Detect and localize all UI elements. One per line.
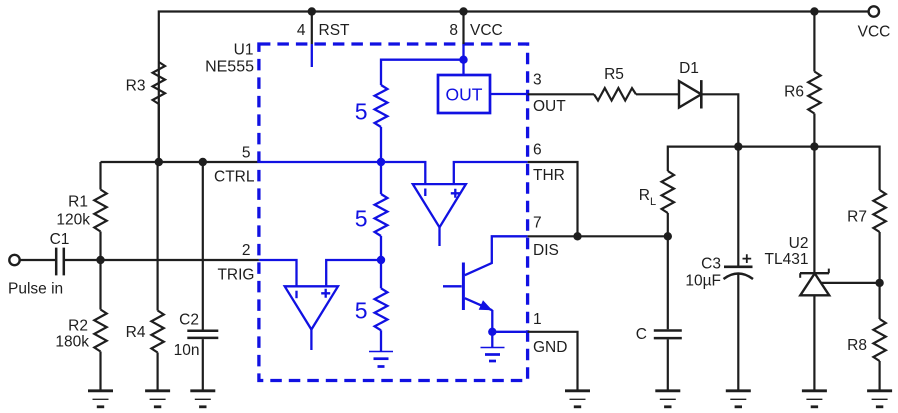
svg-text:TRIG: TRIG (217, 267, 254, 284)
node CTRL internal (377, 158, 385, 166)
wire CTRL line (101, 161, 259, 163)
pin 8 VCC (449, 12, 502, 76)
ground C2 (190, 391, 215, 407)
svg-text:5: 5 (355, 298, 368, 324)
wire OUT to pin 3 (490, 93, 528, 95)
ground R8 (867, 391, 892, 407)
node R6 rail junction (810, 7, 818, 15)
op-amp lower comparator (285, 286, 338, 350)
resistor R6 (784, 12, 820, 147)
wire D1 to lower rail (701, 94, 738, 146)
svg-text:C1: C1 (50, 231, 70, 248)
resistor R3 (126, 62, 165, 104)
svg-text:OUT: OUT (533, 98, 566, 115)
svg-text:D1: D1 (679, 60, 699, 77)
resistor R4 (126, 311, 164, 353)
wire pin7 DIS external (528, 235, 668, 237)
wire C3 to ground (737, 274, 739, 391)
svg-text:NE555: NE555 (205, 59, 254, 76)
wire emitter ground stub (491, 332, 493, 348)
wire CTRL corner down to R1 (99, 162, 101, 190)
svg-text:OUT: OUT (446, 85, 483, 105)
node emitter GND (488, 328, 496, 336)
node D1/C3 (734, 142, 742, 150)
ground R4 (145, 391, 170, 407)
svg-text:R: R (639, 187, 650, 204)
wire C to ground (667, 339, 669, 390)
node VCC rail junction (459, 7, 467, 15)
wire C1 to TRIG pin 2 (65, 259, 259, 261)
svg-text:1: 1 (533, 311, 542, 328)
wire U2 ref to divider (821, 282, 880, 284)
wire R3 bottom to CTRL line (158, 104, 160, 162)
node THR/DIS (573, 232, 581, 240)
wire RL to DIS node (667, 213, 669, 329)
svg-text:10n: 10n (174, 342, 200, 359)
wire internal VCC to divider (381, 60, 464, 85)
terminal Pulse in (9, 255, 19, 265)
wire R4 column (CTRL to ground) (157, 162, 159, 390)
wire C2 column (202, 162, 204, 390)
svg-text:VCC: VCC (858, 24, 891, 41)
capacitor C2 (174, 311, 219, 359)
svg-text:R1: R1 (68, 194, 88, 211)
svg-text:7: 7 (533, 215, 542, 232)
svg-text:C3: C3 (701, 256, 721, 273)
svg-text:120k: 120k (56, 212, 90, 229)
wire pulse to C1 (20, 259, 55, 261)
OUT block (438, 75, 490, 113)
svg-text:R8: R8 (847, 337, 867, 354)
diode D1 (679, 60, 701, 109)
capacitor C1 (50, 231, 70, 275)
svg-text:THR: THR (533, 167, 565, 184)
resistor RL (639, 171, 674, 213)
transistor Q1 discharge (443, 236, 528, 331)
svg-text:TL431: TL431 (765, 251, 809, 268)
svg-text:RST: RST (319, 22, 351, 39)
svg-text:5: 5 (355, 206, 368, 232)
wire pin1 GND external (528, 332, 578, 390)
ground GND pin (565, 391, 590, 407)
wire R1 to TRIG (99, 232, 101, 261)
node ref divider (875, 279, 883, 287)
svg-text:U2: U2 (789, 235, 809, 252)
wire divider upper to CTRL node (380, 127, 382, 194)
wire pin6 THR external (528, 162, 578, 236)
capacitor C timing (636, 326, 682, 343)
svg-text:C: C (636, 326, 647, 343)
capacitor C3 (685, 147, 753, 290)
wire R7 to R8 (878, 232, 880, 319)
svg-text:GND: GND (533, 339, 567, 356)
node C2 on CTRL (199, 158, 207, 166)
svg-text:VCC: VCC (470, 22, 503, 39)
wire pin1 GND internal (492, 331, 527, 333)
ground U2 (802, 391, 827, 407)
svg-text:3: 3 (533, 72, 542, 89)
ground internal divider (369, 352, 393, 367)
wire R8 to ground (878, 361, 880, 390)
node R3/R4 on CTRL (155, 158, 163, 166)
svg-text:8: 8 (449, 22, 458, 39)
svg-text:4: 4 (297, 22, 306, 39)
svg-text:R3: R3 (126, 78, 146, 95)
ground R2 (88, 391, 113, 407)
shunt reference U2 TL431 (765, 147, 830, 296)
svg-text:R4: R4 (126, 324, 146, 341)
node TRIG junction (96, 256, 104, 264)
ground emitter (481, 348, 505, 362)
node internal VCC (459, 56, 467, 64)
wire divider middle to TRIG node (380, 236, 382, 288)
op-amp upper comparator (413, 184, 466, 246)
resistor R2 (55, 310, 106, 352)
svg-text:C2: C2 (179, 311, 199, 328)
resistor 5k upper (355, 85, 388, 127)
wire pin3 OUT to R5 (528, 93, 594, 95)
IC U1 NE555 dashed boundary (205, 42, 528, 381)
svg-text:Pulse in: Pulse in (8, 281, 63, 298)
node RST rail junction (308, 7, 316, 15)
svg-text:6: 6 (533, 142, 542, 159)
wire lower comparator + to divider (326, 260, 381, 286)
resistor R8 (847, 319, 886, 361)
wire mid rail (668, 147, 880, 190)
wire top supply rail (159, 12, 868, 163)
VCC terminal (869, 6, 879, 16)
ground C (655, 391, 680, 407)
svg-text:R6: R6 (784, 84, 804, 101)
resistor R5 (594, 66, 636, 101)
svg-text:2: 2 (242, 242, 251, 259)
ground C3 (726, 391, 751, 407)
wire pin6 THR internal (454, 162, 528, 184)
resistor R7 (847, 190, 886, 232)
svg-text:R7: R7 (847, 209, 867, 226)
svg-text:CTRL: CTRL (214, 169, 255, 186)
svg-text:L: L (650, 196, 656, 208)
pin 4 RST (297, 12, 350, 68)
resistor 5k middle (355, 194, 388, 236)
svg-text:5: 5 (242, 145, 251, 162)
resistor R1 (56, 190, 106, 232)
svg-text:5: 5 (355, 99, 368, 125)
pin 5 CTRL wire into box (259, 162, 425, 184)
wire R5 to D1 (636, 93, 679, 95)
svg-text:10µF: 10µF (685, 273, 721, 290)
svg-text:180k: 180k (55, 334, 89, 351)
svg-text:R2: R2 (68, 318, 88, 335)
node TRIG internal (377, 256, 385, 264)
node R6/U2 (810, 142, 818, 150)
wire R2 to ground (99, 260, 101, 390)
wire U2 to ground (813, 295, 815, 390)
node RL/DIS (664, 232, 672, 240)
svg-text:U1: U1 (234, 42, 254, 59)
resistor 5k lower (355, 288, 388, 330)
svg-text:DIS: DIS (533, 242, 559, 259)
svg-text:R5: R5 (604, 66, 624, 83)
pin 2 TRIG wire into box (259, 260, 297, 286)
wire divider lower to ground (380, 330, 382, 351)
